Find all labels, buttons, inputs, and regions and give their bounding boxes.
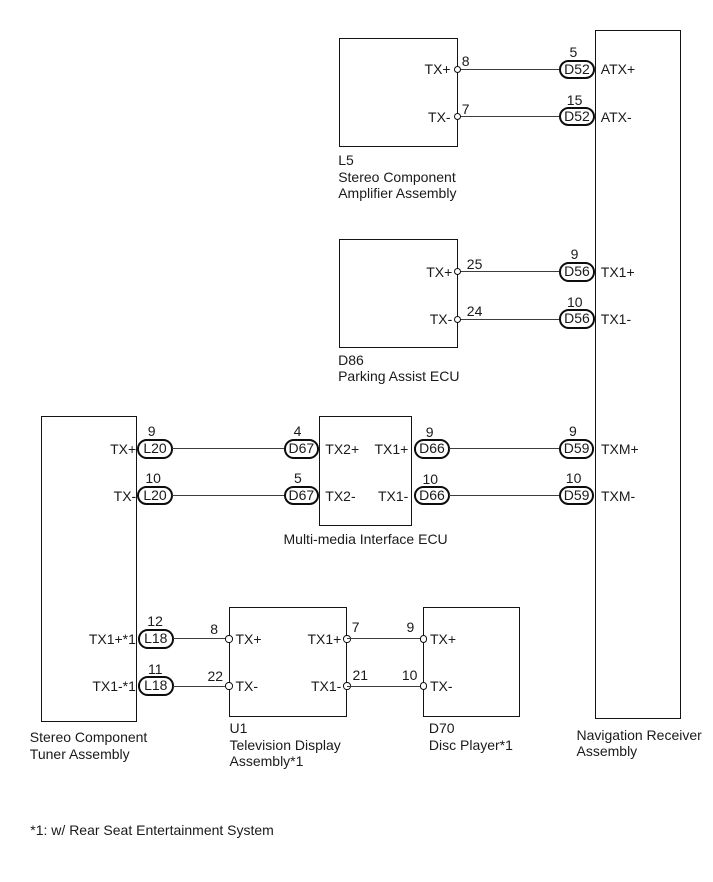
label U1 television display assembly — [230, 720, 341, 770]
terminal ATX+ of navigation receiver — [601, 61, 635, 77]
connector L20 (TX-) — [137, 486, 173, 506]
connector D67 (TX2+) — [284, 439, 320, 459]
terminal TXM+ of navigation receiver — [601, 441, 639, 457]
connector D56 (TX1-) — [559, 309, 595, 329]
pin number 9 of D66 — [426, 425, 434, 439]
wire L20 pin 10 to D67 pin 5 — [172, 495, 285, 496]
connector D67 (TX2-) — [284, 486, 320, 506]
label multi-media interface ECU — [266, 531, 466, 548]
terminal TX+ of tuner — [110, 441, 136, 457]
terminal TX1- of navigation receiver — [601, 311, 631, 327]
pin 7 on L5 amplifier — [454, 113, 461, 120]
terminal TX- of tuner — [114, 488, 137, 504]
connector D66 (TX1+) — [414, 439, 450, 459]
label stereo component tuner assembly — [30, 729, 148, 762]
terminal TX1-*1 of tuner — [92, 678, 136, 694]
wire U1 pin 21 to D70 pin 10 — [347, 686, 423, 687]
terminal TX1+*1 of tuner — [89, 631, 136, 647]
parking assist ECU D86 box — [339, 239, 458, 348]
footnote rear seat entertainment system — [30, 822, 274, 839]
connector D59 (TXM+) — [559, 439, 595, 459]
label navigation receiver assembly — [577, 727, 702, 760]
television display assembly U1 box — [229, 607, 347, 718]
pin number 7 — [462, 102, 470, 116]
pin 22 on U1 television display — [225, 682, 232, 689]
pin 8 on L5 amplifier — [454, 66, 461, 73]
pin 9 on D70 disc player — [420, 635, 427, 642]
terminal TX+ of L5 — [425, 61, 451, 77]
pin number 9 of D56 — [571, 247, 579, 261]
pin number 21 of U1 — [353, 668, 369, 682]
terminal TX- of D86 — [430, 311, 453, 327]
connector D52 (ATX-) — [559, 107, 595, 127]
pin number 7 of U1 — [352, 620, 360, 634]
connector L18 (TX1-*1) — [138, 676, 174, 696]
pin number 9 of D70 — [407, 620, 415, 634]
connector D52 (ATX+) — [559, 60, 595, 80]
label D86 parking assist ECU — [338, 352, 459, 385]
connector D66 (TX1-) — [414, 486, 450, 506]
pin number 8 — [462, 54, 470, 68]
wire L20 pin 9 to D67 pin 4 — [172, 448, 285, 449]
label L5 stereo component amplifier assembly — [338, 152, 456, 202]
terminal TX1+ of U1 — [307, 631, 341, 647]
pin number 10 of D66 — [423, 472, 439, 486]
pin 7 on U1 television display — [343, 635, 350, 642]
pin number 9 of L20 — [148, 424, 156, 438]
pin number 22 of U1 — [208, 669, 224, 683]
connector D59 (TXM-) — [559, 486, 595, 506]
multi-media interface ECU box — [319, 416, 413, 526]
pin number 9 of D59 — [569, 424, 577, 438]
terminal TX1+ of navigation receiver — [601, 264, 635, 280]
terminal TX+ of D70 — [430, 631, 456, 647]
connector D56 (TX1+) — [559, 262, 595, 282]
pin number 5 of D52 — [570, 45, 578, 59]
wire D86 TX+ pin 25 to D56 pin 9 — [458, 271, 560, 272]
pin number 15 of D52 — [567, 93, 583, 107]
terminal ATX- of navigation receiver — [601, 109, 632, 125]
pin number 4 of D67 — [294, 424, 302, 438]
wire D66 pin 9 to D59 pin 9 — [449, 448, 559, 449]
stereo component tuner assembly box — [41, 416, 137, 722]
wire L5 TX- pin 7 to D52 pin 15 — [458, 116, 560, 117]
pin number 24 — [467, 304, 483, 318]
pin number 10 of L20 — [145, 471, 161, 485]
wire D86 TX- pin 24 to D56 pin 10 — [458, 319, 560, 320]
pin 8 on U1 television display — [225, 635, 232, 642]
wire L18 pin 12 to U1 pin 8 — [173, 638, 229, 639]
pin number 5 of D67 — [294, 471, 302, 485]
pin 21 on U1 television display — [343, 682, 350, 689]
pin number 11 of L18 — [148, 662, 163, 676]
terminal TX2+ of multi-media ECU — [325, 441, 359, 457]
terminal TX- of U1 — [236, 678, 259, 694]
pin 10 on D70 disc player — [420, 682, 427, 689]
terminal TX1- of U1 — [311, 678, 341, 694]
pin 24 on D86 — [454, 316, 461, 323]
navigation receiver assembly box — [595, 30, 681, 719]
wire D66 pin 10 to D59 pin 10 — [449, 495, 559, 496]
wire U1 pin 7 to D70 pin 9 — [347, 638, 423, 639]
pin 25 on D86 — [454, 268, 461, 275]
terminal TX+ of U1 — [236, 631, 262, 647]
terminal TX2- of multi-media ECU — [325, 488, 355, 504]
pin number 10 of D59 — [566, 471, 582, 485]
terminal TX- of L5 — [428, 109, 451, 125]
stereo component amplifier assembly L5 box — [339, 38, 458, 148]
terminal TXM- of navigation receiver — [601, 488, 635, 504]
pin number 10 of D56 — [567, 295, 583, 309]
disc player D70 box — [423, 607, 520, 718]
terminal TX- of D70 — [430, 678, 453, 694]
pin number 8 of U1 — [210, 622, 218, 636]
wire L5 TX+ pin 8 to D52 pin 5 — [458, 69, 560, 70]
pin number 25 — [467, 257, 483, 271]
pin number 10 of D70 — [402, 668, 418, 682]
terminal TX1+ of multi-media ECU — [374, 441, 408, 457]
pin number 12 of L18 — [147, 614, 163, 628]
wire L18 pin 11 to U1 pin 22 — [173, 686, 229, 687]
label D70 disc player — [429, 720, 513, 753]
terminal TX+ of D86 — [426, 264, 452, 280]
connector L20 (TX+) — [137, 439, 173, 459]
connector L18 (TX1+*1) — [138, 629, 174, 649]
terminal TX1- of multi-media ECU — [378, 488, 408, 504]
